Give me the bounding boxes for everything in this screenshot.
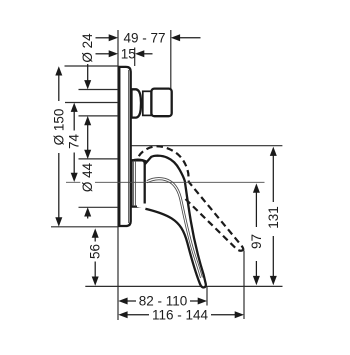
extension line dashed lever tip xyxy=(243,251,245,320)
plate face inner line xyxy=(128,70,130,223)
svg-text:56: 56 xyxy=(88,244,103,259)
extension line plate top xyxy=(65,65,119,67)
wall reference line xyxy=(117,30,119,320)
extension line plate bottom xyxy=(51,226,118,228)
dimension 82-110 xyxy=(118,298,127,305)
extension line hub top xyxy=(79,158,119,160)
svg-text:97: 97 xyxy=(249,234,264,249)
svg-text:74: 74 xyxy=(67,134,82,150)
svg-text:Ø 150: Ø 150 xyxy=(51,109,66,146)
dimension Ø44 xyxy=(84,150,91,159)
escutcheon plate xyxy=(119,67,130,226)
svg-text:131: 131 xyxy=(266,206,281,229)
dimension 131 xyxy=(270,147,277,156)
lever dashed alternate lower edge xyxy=(186,199,244,251)
svg-text:116 - 144: 116 - 144 xyxy=(152,307,209,322)
svg-text:Ø 24: Ø 24 xyxy=(80,33,95,63)
extension line knob front xyxy=(170,30,172,89)
extension line knob top xyxy=(79,89,119,91)
svg-text:49 - 77: 49 - 77 xyxy=(123,30,165,45)
dimension Ø150 xyxy=(55,66,62,75)
bottom reference line xyxy=(85,285,282,287)
svg-text:Ø 44: Ø 44 xyxy=(80,162,95,192)
knob front cap xyxy=(151,89,171,117)
axis line through lever xyxy=(66,181,80,183)
svg-text:82 - 110: 82 - 110 xyxy=(139,294,188,309)
dimension 15 xyxy=(96,53,110,55)
extension line knob axis xyxy=(65,102,118,104)
extension line dashed lever top (131) xyxy=(130,145,282,147)
lever handle outline xyxy=(145,156,206,288)
knob rear dome xyxy=(132,89,141,117)
lever highlight double line xyxy=(147,178,203,278)
extension line lever tip bottom xyxy=(206,286,208,306)
knob neck xyxy=(143,91,151,115)
extension line hub bottom xyxy=(79,206,119,208)
dimension 74 xyxy=(71,103,78,112)
extension line plate front (15) xyxy=(134,48,136,67)
hub top edge xyxy=(132,159,147,161)
lever dashed alternate position arc and upper edge xyxy=(139,146,244,249)
dimension 97 xyxy=(253,183,260,192)
dimension 56 xyxy=(92,228,99,237)
hub front face edge xyxy=(144,164,146,204)
handle hub xyxy=(132,160,145,206)
hub flange lines xyxy=(133,161,135,207)
dimension 116-144 xyxy=(118,311,127,318)
lever handle solid fill xyxy=(137,156,206,288)
extension line knob bottom xyxy=(79,115,119,117)
dimension 49-77 xyxy=(96,37,110,39)
svg-text:15: 15 xyxy=(121,46,136,61)
